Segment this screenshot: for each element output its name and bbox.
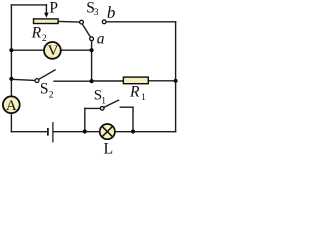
wire S1 branch right vertical	[132, 107, 134, 131]
wire left rail bottom section	[10, 114, 12, 132]
wire node a junction to R1	[92, 80, 123, 82]
wire right rail vertical	[175, 22, 177, 132]
junction dot node a S2 row	[90, 79, 94, 83]
junction dot lamp row right	[131, 129, 135, 133]
svg-text:b: b	[107, 3, 116, 22]
wire voltmeter row right	[62, 49, 92, 51]
wire battery to lamp	[54, 131, 99, 133]
wire voltmeter row left	[11, 49, 43, 51]
wire left rail top section	[10, 5, 12, 96]
switch S3 pivot contact	[80, 20, 84, 24]
wire S1 branch left vertical	[84, 108, 86, 131]
switch S1 contact circle	[100, 107, 104, 111]
junction dot R1 right rail	[174, 79, 178, 83]
wire top horizontal run	[11, 4, 46, 6]
svg-text:2: 2	[49, 90, 54, 100]
resistor R1 body	[123, 77, 148, 84]
svg-text:R: R	[31, 24, 42, 41]
svg-text:A: A	[6, 98, 17, 114]
slider arrowhead P	[44, 13, 49, 18]
svg-text:S: S	[40, 80, 49, 97]
svg-text:1: 1	[141, 93, 146, 103]
wire node a vertical	[91, 41, 93, 81]
wire S1 lever	[104, 100, 119, 107]
ammeter A	[3, 96, 20, 114]
contact b circle	[102, 20, 106, 24]
wire b contact to right rail	[106, 21, 175, 23]
lamp L	[100, 124, 115, 139]
junction dot voltmeter row left	[9, 48, 13, 52]
wire R1 to right rail	[149, 80, 176, 82]
wire bottom run to battery	[11, 131, 47, 133]
wire S2 row left	[11, 79, 34, 80]
junction dot lamp row left	[83, 129, 87, 133]
wire S2 lever	[39, 70, 55, 79]
svg-text:1: 1	[101, 96, 106, 106]
voltmeter V	[44, 42, 61, 59]
wire S1 branch left horizontal	[85, 107, 100, 109]
wire R2 to S3 pivot	[59, 20, 79, 23]
junction dot node a voltmeter wire	[90, 48, 94, 52]
battery cell	[48, 122, 53, 142]
svg-text:R: R	[129, 84, 140, 101]
wire S1 branch right horizontal	[120, 106, 133, 108]
svg-text:P: P	[49, 0, 58, 17]
svg-text:a: a	[97, 31, 105, 48]
switch S2 contact circle	[35, 79, 39, 83]
wire lamp to right rail	[116, 131, 176, 133]
junction dot S2 row left	[9, 77, 13, 81]
svg-text:2: 2	[42, 34, 47, 44]
rheostat R2 body	[34, 19, 59, 24]
wire S2 to node a junction	[54, 80, 92, 82]
svg-text:L: L	[104, 141, 114, 155]
svg-text:3: 3	[94, 8, 99, 18]
wire P arrow stem	[45, 5, 47, 13]
wire S3 lever	[82, 24, 90, 37]
contact a circle	[90, 37, 94, 41]
svg-text:V: V	[48, 43, 59, 59]
